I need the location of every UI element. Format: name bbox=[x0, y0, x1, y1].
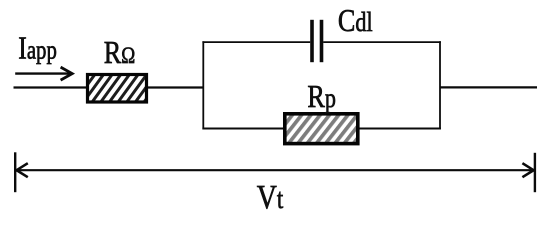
wire: left input segment bbox=[14, 86, 88, 88]
svg-text:Rp: Rp bbox=[307, 80, 336, 115]
wire: right output segment bbox=[440, 86, 537, 88]
svg-text:Vt: Vt bbox=[257, 177, 284, 215]
parallel block: right vertical wire bbox=[439, 41, 441, 129]
Vt dimension line bbox=[15, 152, 535, 192]
svg-text:Cdl: Cdl bbox=[338, 4, 373, 39]
left end bar bbox=[14, 152, 16, 192]
wire: between R-ohm and parallel block bbox=[148, 86, 204, 88]
svg-text:Iapp: Iapp bbox=[18, 31, 57, 66]
svg-text:RΩ: RΩ bbox=[104, 36, 136, 71]
parallel block: left vertical wire bbox=[202, 41, 204, 129]
right end bar bbox=[534, 153, 536, 192]
horizontal line bbox=[16, 169, 534, 171]
bottom branch wire, right of Rp bbox=[359, 128, 441, 130]
left arrowhead bbox=[17, 163, 28, 177]
resistor R-ohm bbox=[88, 75, 147, 103]
top branch wire, right of capacitor bbox=[323, 41, 441, 43]
capacitor Cdl plates bbox=[310, 20, 314, 62]
right arrowhead bbox=[522, 163, 533, 177]
resistor Rp bbox=[285, 114, 358, 144]
top branch wire, left of capacitor bbox=[202, 41, 310, 43]
current arrow Iapp bbox=[15, 67, 72, 80]
bottom branch wire, left of Rp bbox=[202, 128, 284, 130]
